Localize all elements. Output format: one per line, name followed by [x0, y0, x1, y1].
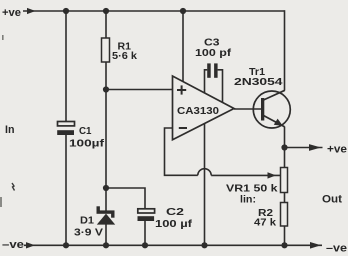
- resistor VR1 body: [281, 168, 288, 193]
- svg-text:In: In: [5, 124, 15, 136]
- junction bottom rail / C2: [142, 242, 148, 248]
- zener D1 right tail: [111, 214, 114, 218]
- svg-text:47 k: 47 k: [254, 217, 276, 229]
- scan artifact squiggle near In: [12, 183, 15, 191]
- junction bottom rail / R2: [281, 242, 287, 248]
- svg-text:C1: C1: [79, 125, 92, 137]
- wire top +ve rail: [23, 10, 285, 12]
- wire node A down to node B: [105, 90, 107, 189]
- svg-text:C2: C2: [166, 206, 184, 218]
- junction top rail / R1: [103, 8, 109, 14]
- wire feedback to VR1 wiper: [211, 174, 280, 176]
- junction top rail / op-amp V+: [180, 8, 186, 14]
- svg-text:5·6 k: 5·6 k: [112, 50, 137, 62]
- svg-text:100 µf: 100 µf: [155, 218, 193, 230]
- resistor R2 body: [281, 203, 288, 227]
- svg-text:–ve: –ve: [326, 243, 347, 255]
- transistor Q1 emitter arrowhead: [274, 119, 283, 126]
- capacitor C3 left plate: [207, 63, 211, 77]
- wire op-amp minus stub and feedback down: [165, 128, 198, 175]
- wire C1 branch lower: [65, 135, 67, 246]
- transistor Q1 base bar: [261, 98, 264, 121]
- junction bottom rail / C1: [63, 242, 69, 248]
- op-amp plus input marker: [177, 85, 187, 128]
- wire op-amp V+ supply: [182, 11, 184, 82]
- wire hop over V- line: [198, 169, 211, 176]
- resistor R1 body: [102, 38, 110, 62]
- capacitor C2 top plate (open): [138, 209, 155, 213]
- zener D1 triangle: [97, 214, 115, 225]
- capacitor C3 right lead: [218, 70, 223, 103]
- capacitor C3 left lead: [205, 70, 208, 93]
- wire node B to C2 top: [106, 188, 145, 209]
- wire emitter to +ve out node: [284, 127, 286, 168]
- capacitor C3 right plate: [214, 63, 218, 77]
- transistor Q1 collector diagonal: [264, 90, 285, 100]
- scan artifact left edge smudge: [0, 197, 2, 207]
- arrow -ve out right: [310, 242, 321, 249]
- zener D1 left tail: [97, 206, 100, 211]
- op-amp minus input marker: [179, 127, 187, 129]
- junction top rail / C1: [63, 8, 69, 14]
- transistor Q1 circle: [253, 91, 290, 128]
- svg-text:CA3130: CA3130: [177, 105, 219, 117]
- svg-text:2N3054: 2N3054: [234, 76, 283, 88]
- wire op-amp V- to bottom rail: [204, 123, 206, 245]
- svg-text:C3: C3: [204, 38, 220, 49]
- wire C1 branch upper: [65, 11, 67, 122]
- scan artifact top left speck: [2, 35, 4, 40]
- arrow +ve rail left: [27, 8, 36, 14]
- junction emitter +ve out node: [281, 144, 287, 150]
- wire bottom -ve rail: [24, 244, 322, 246]
- capacitor C1 top plate (open): [58, 122, 75, 126]
- arrow +ve out right: [309, 144, 321, 151]
- wire op-amp plus input: [106, 89, 173, 91]
- wire D1 top lead: [105, 188, 107, 211]
- svg-text:100µf: 100µf: [69, 138, 105, 150]
- arrow VR1 wiper: [268, 172, 277, 178]
- wire D1 bottom lead: [105, 225, 107, 246]
- svg-text:3·9 V: 3·9 V: [74, 227, 103, 239]
- junction node A plus-input: [103, 86, 109, 92]
- zener D1 cathode bar: [97, 210, 115, 213]
- junction node B D1/C2: [103, 185, 109, 191]
- junction bottom rail / op-amp V-: [201, 242, 207, 248]
- capacitor C2 bottom plate (solid): [138, 216, 155, 221]
- svg-text:+ve: +ve: [327, 144, 347, 156]
- svg-text:100 pf: 100 pf: [195, 48, 232, 59]
- wire +ve output: [285, 147, 323, 149]
- svg-text:D1: D1: [80, 215, 94, 227]
- junction bottom rail / D1: [103, 242, 109, 248]
- wire R1 bottom lead to node A: [105, 62, 107, 90]
- wire op-amp output to base: [234, 108, 262, 110]
- svg-text:lin:: lin:: [240, 194, 256, 206]
- arrow -ve rail left: [26, 242, 35, 248]
- wire R1 top lead: [105, 11, 107, 38]
- wire VR1 to R2: [284, 193, 286, 203]
- svg-text:Out: Out: [322, 194, 342, 206]
- op-amp U1 triangle: [173, 76, 235, 140]
- transistor Q1 emitter diagonal: [264, 116, 285, 127]
- svg-text:+ve: +ve: [2, 7, 21, 19]
- svg-text:–ve: –ve: [2, 239, 24, 251]
- wire R2 bottom lead: [284, 226, 286, 245]
- capacitor C1 bottom plate (solid): [57, 130, 74, 135]
- wire right bus collector segment: [284, 10, 286, 90]
- wire C2 bottom lead: [144, 221, 146, 245]
